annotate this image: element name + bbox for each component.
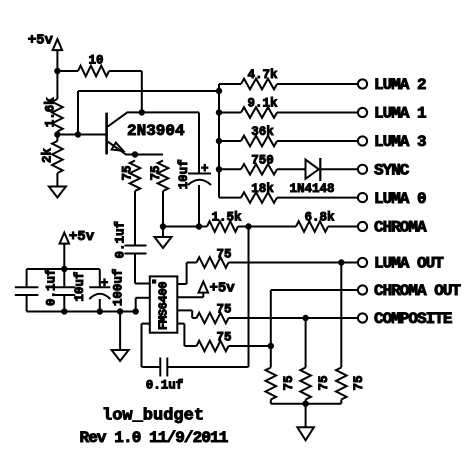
svg-text:0.1uf: 0.1uf <box>114 221 128 259</box>
svg-text:6.8k: 6.8k <box>304 211 335 225</box>
svg-text:FMS6400: FMS6400 <box>156 282 170 330</box>
svg-text:75: 75 <box>120 165 134 180</box>
svg-text:75: 75 <box>317 375 331 390</box>
svg-text:+: + <box>201 162 209 176</box>
svg-text:COMPOSITE: COMPOSITE <box>374 310 452 328</box>
svg-text:+5v: +5v <box>210 281 236 297</box>
svg-text:LUMA 1: LUMA 1 <box>374 105 426 123</box>
svg-text:1.5k: 1.5k <box>211 211 242 225</box>
svg-text:Rev 1.0 11/9/2011: Rev 1.0 11/9/2011 <box>80 429 228 447</box>
svg-text:2N3904: 2N3904 <box>127 122 185 140</box>
svg-text:100uf: 100uf <box>112 269 126 307</box>
svg-text:LUMA 2: LUMA 2 <box>374 76 426 94</box>
svg-text:75: 75 <box>216 330 231 344</box>
svg-text:+5v: +5v <box>69 229 95 245</box>
svg-text:10uf: 10uf <box>177 159 191 189</box>
svg-text:0.1uf: 0.1uf <box>146 379 184 393</box>
svg-text:10uf: 10uf <box>73 272 87 302</box>
svg-text:75: 75 <box>149 165 163 180</box>
svg-text:LUMA OUT: LUMA OUT <box>374 255 444 273</box>
svg-text:10: 10 <box>89 54 104 68</box>
svg-text:LUMA 0: LUMA 0 <box>374 190 426 208</box>
svg-text:75: 75 <box>216 303 231 317</box>
svg-text:36k: 36k <box>251 125 274 139</box>
svg-text:1N4148: 1N4148 <box>289 182 334 196</box>
svg-text:CHROMA: CHROMA <box>374 219 427 237</box>
svg-text:75: 75 <box>282 375 296 390</box>
svg-text:9.1k: 9.1k <box>247 97 278 111</box>
svg-text:low_budget: low_budget <box>102 407 204 426</box>
svg-text:75: 75 <box>216 248 231 262</box>
svg-text:4.7k: 4.7k <box>247 68 278 82</box>
svg-text:LUMA 3: LUMA 3 <box>374 133 426 151</box>
svg-text:75: 75 <box>352 375 366 390</box>
svg-text:750: 750 <box>251 154 274 168</box>
svg-text:+: + <box>101 276 109 290</box>
svg-text:2k: 2k <box>41 148 55 164</box>
svg-text:18k: 18k <box>251 182 274 196</box>
svg-text:+5v: +5v <box>28 33 54 49</box>
svg-text:1.6k: 1.6k <box>43 97 57 128</box>
svg-text:SYNC: SYNC <box>374 162 410 180</box>
svg-text:CHROMA OUT: CHROMA OUT <box>374 282 461 300</box>
